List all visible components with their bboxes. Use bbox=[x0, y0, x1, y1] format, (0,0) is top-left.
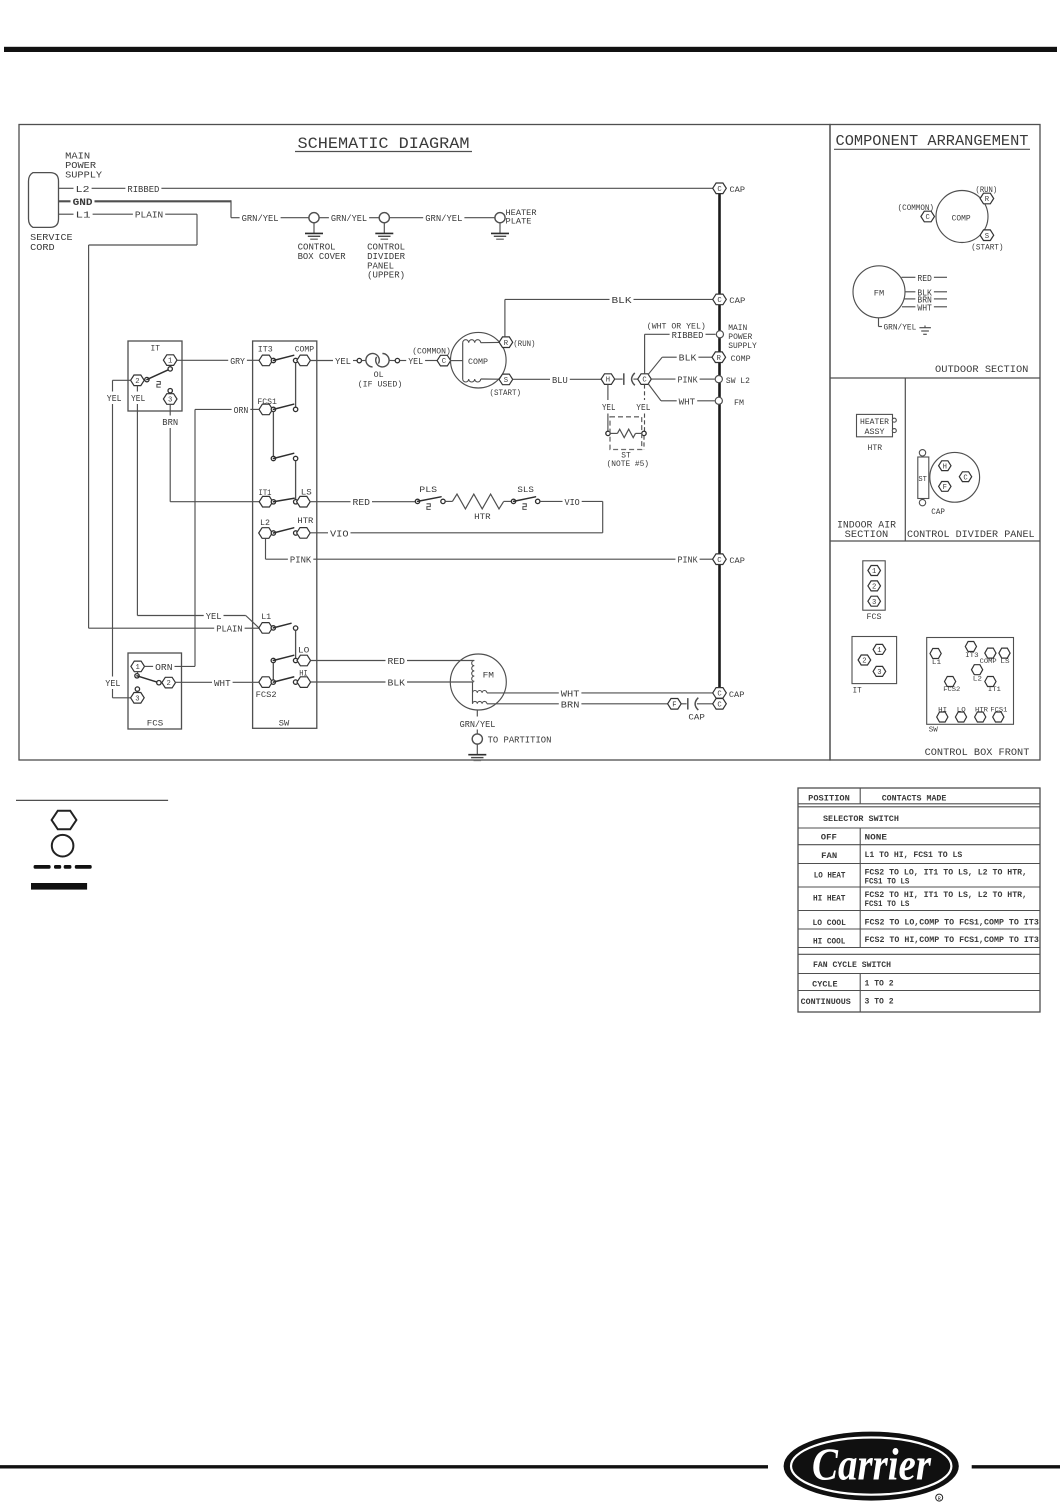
svg-text:R: R bbox=[938, 1496, 941, 1502]
svg-text:CAP: CAP bbox=[729, 296, 745, 306]
svg-text:L1 TO HI, FCS1 TO LS: L1 TO HI, FCS1 TO LS bbox=[865, 851, 963, 860]
svg-text:IT: IT bbox=[151, 343, 161, 353]
svg-text:L1: L1 bbox=[76, 211, 91, 221]
svg-text:GRY: GRY bbox=[230, 357, 245, 367]
svg-text:IT1: IT1 bbox=[988, 686, 1001, 694]
svg-text:WHT: WHT bbox=[917, 303, 932, 313]
svg-text:GRN/YEL: GRN/YEL bbox=[425, 214, 462, 224]
svg-text:LO COOL: LO COOL bbox=[812, 919, 846, 928]
svg-text:FAN CYCLE SWITCH: FAN CYCLE SWITCH bbox=[813, 961, 891, 970]
svg-text:FCS1: FCS1 bbox=[990, 707, 1007, 715]
svg-text:NONE: NONE bbox=[865, 834, 888, 843]
svg-text:C: C bbox=[963, 474, 968, 482]
svg-text:BLU: BLU bbox=[552, 376, 568, 386]
svg-text:VIO: VIO bbox=[565, 498, 580, 508]
svg-text:COMP: COMP bbox=[468, 357, 488, 367]
svg-text:BRN: BRN bbox=[162, 418, 178, 428]
svg-text:3: 3 bbox=[135, 695, 139, 703]
svg-text:1: 1 bbox=[872, 568, 876, 576]
svg-text:CAP: CAP bbox=[688, 712, 705, 722]
svg-text:PINK: PINK bbox=[678, 556, 699, 566]
svg-text:3: 3 bbox=[168, 397, 172, 405]
svg-text:2: 2 bbox=[872, 584, 876, 592]
svg-text:C: C bbox=[717, 186, 722, 194]
svg-text:FCS2 TO LO,COMP TO FCS1,COMP T: FCS2 TO LO,COMP TO FCS1,COMP TO IT3 bbox=[865, 919, 1039, 928]
svg-text:C: C bbox=[717, 297, 722, 305]
svg-text:1: 1 bbox=[877, 647, 881, 655]
svg-text:LO: LO bbox=[957, 707, 966, 715]
svg-text:HTR: HTR bbox=[297, 516, 313, 526]
svg-text:L2: L2 bbox=[973, 676, 982, 684]
svg-text:SELECTOR SWITCH: SELECTOR SWITCH bbox=[823, 815, 899, 824]
svg-text:TO PARTITION: TO PARTITION bbox=[488, 736, 552, 746]
svg-text:R: R bbox=[504, 340, 509, 348]
svg-text:C: C bbox=[717, 691, 722, 699]
svg-text:(UPPER): (UPPER) bbox=[367, 271, 405, 281]
svg-text:PLATE: PLATE bbox=[506, 217, 532, 227]
svg-text:1: 1 bbox=[136, 664, 140, 672]
svg-text:1 TO 2: 1 TO 2 bbox=[865, 980, 894, 989]
svg-text:RED: RED bbox=[388, 657, 406, 667]
svg-text:COMPONENT ARRANGEMENT: COMPONENT ARRANGEMENT bbox=[836, 133, 1029, 150]
svg-text:FCS: FCS bbox=[147, 719, 164, 729]
svg-text:CYCLE: CYCLE bbox=[812, 981, 837, 990]
svg-text:PLS: PLS bbox=[419, 485, 437, 495]
svg-text:WHT: WHT bbox=[561, 689, 580, 699]
svg-text:SUPPLY: SUPPLY bbox=[65, 170, 103, 180]
svg-text:HTR: HTR bbox=[868, 443, 883, 453]
svg-text:PLAIN: PLAIN bbox=[216, 625, 242, 635]
svg-text:GRN/YEL: GRN/YEL bbox=[460, 720, 496, 730]
svg-text:SW L2: SW L2 bbox=[726, 376, 750, 386]
svg-text:COMP: COMP bbox=[952, 213, 971, 223]
svg-text:(START): (START) bbox=[490, 388, 522, 398]
svg-text:YEL: YEL bbox=[602, 403, 616, 413]
svg-text:IT3: IT3 bbox=[965, 652, 979, 660]
svg-text:CONTROL DIVIDER PANEL: CONTROL DIVIDER PANEL bbox=[907, 530, 1035, 541]
svg-text:C: C bbox=[642, 377, 647, 385]
svg-text:3: 3 bbox=[877, 669, 881, 677]
svg-text:FCS1 TO LS: FCS1 TO LS bbox=[865, 900, 910, 909]
svg-text:(RUN): (RUN) bbox=[976, 185, 998, 195]
svg-text:SECTION: SECTION bbox=[845, 530, 889, 541]
svg-text:RIBBED: RIBBED bbox=[672, 331, 704, 341]
svg-text:FCS: FCS bbox=[867, 612, 882, 622]
svg-text:ORN: ORN bbox=[234, 406, 249, 416]
svg-text:L2: L2 bbox=[260, 518, 270, 528]
svg-text:3: 3 bbox=[872, 599, 876, 607]
svg-text:2: 2 bbox=[135, 378, 139, 386]
svg-text:(COMMON): (COMMON) bbox=[898, 203, 934, 213]
svg-text:(NOTE #5): (NOTE #5) bbox=[607, 459, 649, 469]
svg-text:F: F bbox=[943, 484, 947, 492]
svg-text:L1: L1 bbox=[261, 612, 271, 622]
svg-text:BLK: BLK bbox=[679, 354, 697, 364]
svg-text:H: H bbox=[943, 463, 947, 471]
svg-text:GRN/YEL: GRN/YEL bbox=[884, 323, 917, 333]
svg-text:H: H bbox=[606, 377, 610, 385]
svg-text:(RUN): (RUN) bbox=[513, 339, 535, 349]
svg-text:C: C bbox=[717, 701, 722, 709]
svg-text:HTR: HTR bbox=[975, 707, 988, 715]
svg-text:SERVICE: SERVICE bbox=[30, 233, 72, 243]
svg-text:S: S bbox=[504, 377, 508, 385]
svg-text:YEL: YEL bbox=[105, 679, 120, 689]
svg-text:SW: SW bbox=[929, 726, 939, 734]
svg-text:MAIN: MAIN bbox=[65, 151, 90, 161]
svg-text:YEL: YEL bbox=[206, 612, 222, 622]
svg-text:FCS1 TO LS: FCS1 TO LS bbox=[865, 878, 910, 887]
svg-text:POWER: POWER bbox=[65, 161, 97, 171]
svg-text:RED: RED bbox=[917, 274, 932, 284]
svg-text:CAP: CAP bbox=[730, 185, 746, 195]
svg-text:COMP: COMP bbox=[295, 345, 315, 355]
svg-text:GND: GND bbox=[73, 198, 93, 209]
svg-text:HI HEAT: HI HEAT bbox=[813, 895, 846, 904]
svg-text:FM: FM bbox=[483, 671, 494, 681]
svg-text:PINK: PINK bbox=[678, 376, 699, 386]
svg-text:C: C bbox=[442, 358, 447, 366]
svg-text:CAP: CAP bbox=[729, 690, 745, 700]
svg-text:POSITION: POSITION bbox=[808, 795, 850, 804]
svg-text:BLK: BLK bbox=[388, 679, 406, 689]
svg-text:SLS: SLS bbox=[517, 485, 534, 495]
svg-text:YEL: YEL bbox=[335, 357, 351, 367]
svg-text:CONTROL BOX FRONT: CONTROL BOX FRONT bbox=[925, 748, 1030, 759]
svg-text:GRN/YEL: GRN/YEL bbox=[331, 214, 367, 224]
svg-text:OUTDOOR SECTION: OUTDOOR SECTION bbox=[935, 365, 1028, 376]
svg-text:SW: SW bbox=[279, 719, 290, 729]
svg-text:L1: L1 bbox=[932, 659, 941, 667]
svg-text:FAN: FAN bbox=[821, 852, 837, 861]
svg-text:LO: LO bbox=[298, 646, 310, 656]
svg-text:FCS2 TO HI,COMP TO FCS1,COMP T: FCS2 TO HI,COMP TO FCS1,COMP TO IT3 bbox=[865, 936, 1039, 945]
svg-text:Carrier: Carrier bbox=[812, 1440, 931, 1490]
svg-text:HEATER: HEATER bbox=[860, 418, 889, 427]
svg-text:OFF: OFF bbox=[821, 834, 837, 843]
svg-text:(WHT OR YEL): (WHT OR YEL) bbox=[647, 321, 706, 331]
svg-text:CONTINUOUS: CONTINUOUS bbox=[801, 998, 851, 1007]
svg-text:2: 2 bbox=[167, 680, 171, 688]
svg-text:MAIN: MAIN bbox=[728, 324, 747, 333]
svg-text:WHT: WHT bbox=[679, 397, 696, 407]
svg-text:YEL: YEL bbox=[408, 357, 423, 367]
svg-text:C: C bbox=[717, 557, 722, 565]
svg-text:YEL: YEL bbox=[636, 403, 650, 413]
svg-text:ST: ST bbox=[918, 476, 927, 484]
svg-text:3 TO 2: 3 TO 2 bbox=[865, 998, 894, 1007]
svg-text:YEL: YEL bbox=[131, 394, 145, 404]
svg-text:SUPPLY: SUPPLY bbox=[728, 342, 757, 351]
svg-text:FM: FM bbox=[874, 288, 884, 298]
svg-text:COMP: COMP bbox=[731, 354, 751, 364]
svg-text:C: C bbox=[926, 214, 931, 222]
svg-text:BOX COVER: BOX COVER bbox=[298, 252, 347, 262]
svg-text:FM: FM bbox=[734, 398, 744, 408]
svg-text:RIBBED: RIBBED bbox=[127, 185, 159, 195]
svg-text:BRN: BRN bbox=[561, 700, 580, 710]
svg-text:HI COOL: HI COOL bbox=[813, 937, 846, 946]
svg-text:1: 1 bbox=[168, 358, 172, 366]
svg-text:SCHEMATIC DIAGRAM: SCHEMATIC DIAGRAM bbox=[298, 135, 470, 153]
svg-text:HTR: HTR bbox=[474, 512, 491, 522]
svg-text:FCS2: FCS2 bbox=[943, 686, 960, 694]
svg-text:WHT: WHT bbox=[214, 679, 231, 689]
svg-text:L2: L2 bbox=[76, 185, 90, 195]
svg-text:(START): (START) bbox=[971, 242, 1003, 252]
svg-text:FCS2 TO LO, IT1 TO LS, L2 TO H: FCS2 TO LO, IT1 TO LS, L2 TO HTR, bbox=[865, 868, 1028, 877]
svg-text:HI: HI bbox=[938, 707, 947, 715]
svg-text:CORD: CORD bbox=[30, 243, 54, 253]
svg-text:IT3: IT3 bbox=[258, 345, 273, 355]
svg-text:CAP: CAP bbox=[729, 556, 745, 566]
svg-text:RED: RED bbox=[353, 498, 371, 508]
svg-text:F: F bbox=[672, 701, 676, 709]
svg-text:GRN/YEL: GRN/YEL bbox=[242, 214, 279, 224]
svg-text:FCS2 TO HI, IT1 TO LS, L2 TO H: FCS2 TO HI, IT1 TO LS, L2 TO HTR, bbox=[865, 891, 1028, 900]
svg-text:FCS2: FCS2 bbox=[256, 690, 277, 700]
svg-text:IT: IT bbox=[853, 686, 862, 696]
svg-text:PINK: PINK bbox=[290, 556, 312, 566]
svg-text:CONTACTS MADE: CONTACTS MADE bbox=[882, 795, 947, 804]
svg-text:YEL: YEL bbox=[107, 394, 122, 404]
svg-text:COMP: COMP bbox=[980, 658, 997, 666]
svg-text:R: R bbox=[717, 355, 722, 363]
svg-text:LO HEAT: LO HEAT bbox=[814, 872, 846, 881]
svg-text:BLK: BLK bbox=[612, 296, 633, 306]
svg-text:2: 2 bbox=[862, 658, 866, 666]
svg-text:VIO: VIO bbox=[330, 529, 349, 539]
svg-text:S: S bbox=[985, 233, 989, 241]
svg-text:LS: LS bbox=[1000, 658, 1009, 666]
svg-text:R: R bbox=[985, 196, 990, 204]
svg-text:(IF USED): (IF USED) bbox=[358, 380, 403, 390]
svg-text:PLAIN: PLAIN bbox=[135, 211, 163, 221]
svg-text:CAP: CAP bbox=[931, 507, 945, 517]
svg-text:POWER: POWER bbox=[728, 333, 752, 342]
svg-text:ORN: ORN bbox=[155, 663, 172, 673]
svg-text:ASSY: ASSY bbox=[865, 428, 885, 437]
